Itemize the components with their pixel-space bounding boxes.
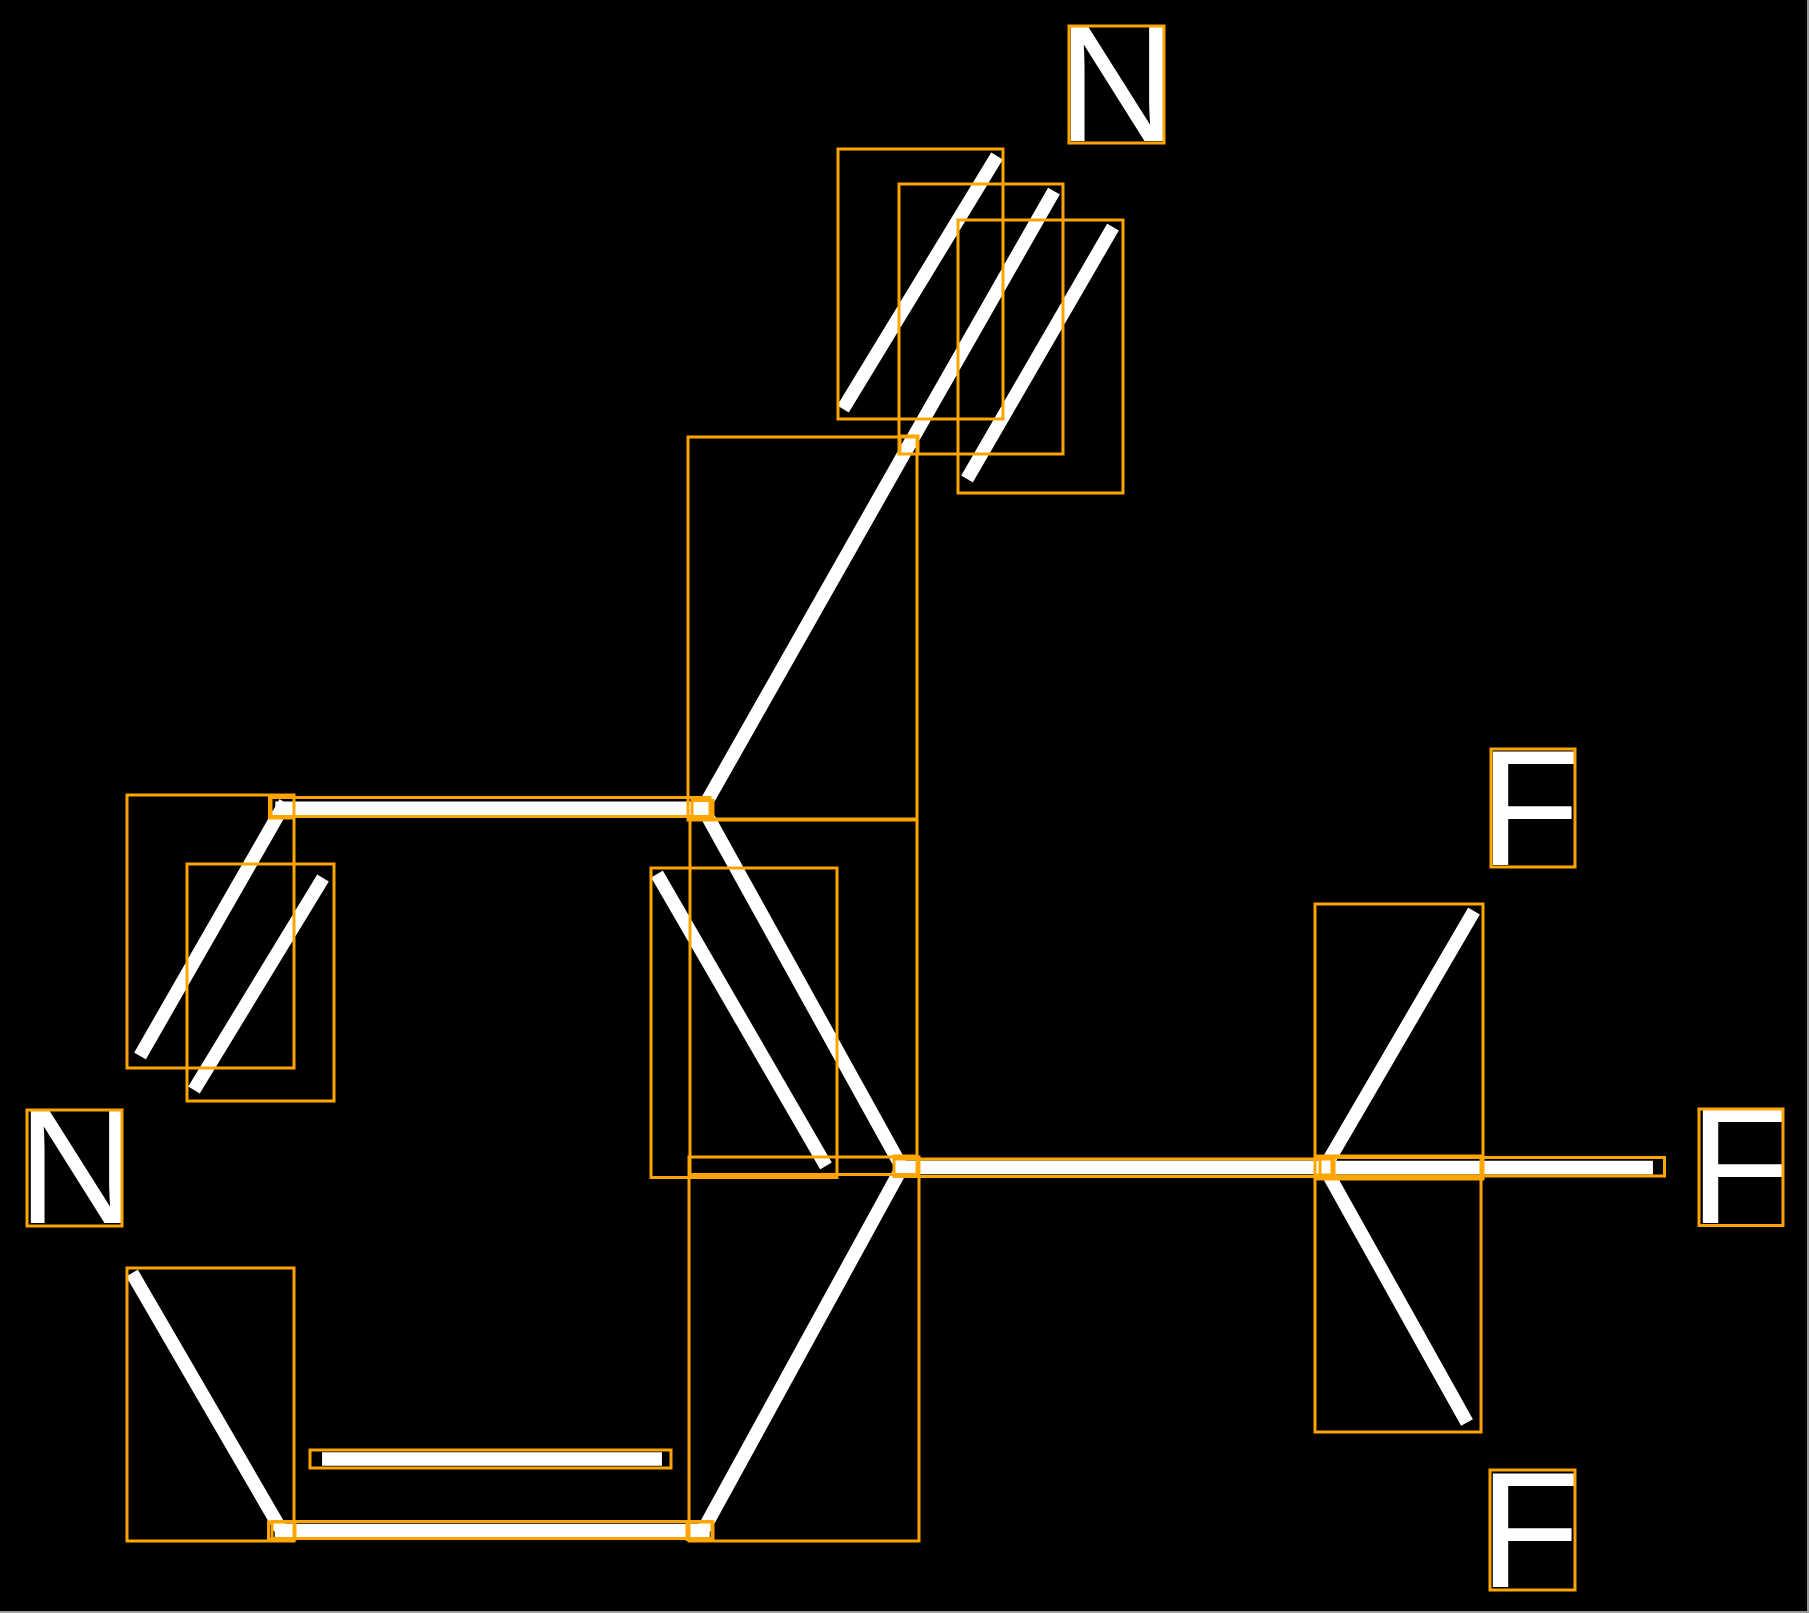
node box bond C3-C4 main [690, 819, 917, 1175]
wire bond N1-C6 [135, 1279, 281, 1531]
wire bond C3-C7 to nitrile carbon [703, 445, 909, 808]
wire window edge right [1807, 0, 1809, 1613]
node box bond C3-C4 inner [651, 868, 837, 1178]
node box atom C6 [269, 1522, 296, 1539]
node box atom C3 [692, 801, 713, 818]
node box label F10 [1491, 749, 1575, 867]
wire bond C6-C5 double main line [282, 1524, 704, 1538]
wire bond C9-F11 [1325, 1161, 1647, 1175]
wire bond C9-F12 [1325, 1168, 1464, 1417]
node box bond C2-C3 [271, 798, 710, 817]
node box bond C2-N1 inner [187, 864, 334, 1101]
node box label N1 [27, 1110, 122, 1226]
node box label N8 [1069, 26, 1164, 143]
wire bond C7-N8 triple line 1 [847, 162, 994, 403]
node box atom C4 [894, 1156, 917, 1175]
node box label F11 [1699, 1109, 1783, 1226]
svg-text:F: F [1479, 1438, 1580, 1613]
wire bond C2-N1 double main line [143, 808, 282, 1050]
node box bond C3-C7 [688, 437, 917, 820]
wire bond C4-C9 to CF3 carbon [902, 1161, 1325, 1175]
svg-text:N: N [17, 1074, 136, 1258]
node box atom C9 [1315, 1158, 1334, 1176]
node box bond N1-C6 [127, 1268, 294, 1541]
svg-text:F: F [1689, 1074, 1790, 1258]
node box atom C5 [687, 1522, 713, 1540]
node box bond C5-C4 [689, 1157, 919, 1541]
node box bond C7-N8 line1 [838, 149, 1003, 419]
wire window edge bottom [0, 1611, 1809, 1613]
node box atom C7 [900, 436, 918, 454]
wire bond C7-N8 triple line 2 [909, 197, 1051, 445]
node box bond C9-F10 [1315, 904, 1483, 1179]
wire bond C6-C5 double inner line [329, 1452, 655, 1466]
node box bond C7-N8 line2 [899, 184, 1063, 454]
node box bond C9-F11 [1320, 1158, 1665, 1177]
node box bond C6-C5 main [272, 1522, 712, 1539]
node box bond C7-N8 line3 [958, 220, 1123, 493]
wire bond C3-C4 double inner line [660, 880, 822, 1160]
wire bond C2-C3 ring top [282, 802, 703, 816]
node box atom C2 [270, 798, 295, 819]
node box bond C4-C9 [894, 1159, 1332, 1177]
wire bond C7-N8 triple line 3 [970, 233, 1109, 473]
wire bond C3-C4 double main line [703, 808, 902, 1167]
node box label F12 [1490, 1470, 1575, 1590]
wire bond C5-C4 [703, 1168, 902, 1531]
wire bond C2-N1 double inner line [198, 884, 320, 1084]
wire bond C9-F10 [1325, 917, 1471, 1168]
node box bond C2-N1 main [127, 795, 294, 1068]
svg-text:F: F [1479, 716, 1580, 900]
node box bond C9-F12 [1315, 1156, 1481, 1432]
node box bond C6-C5 inner [310, 1450, 671, 1468]
